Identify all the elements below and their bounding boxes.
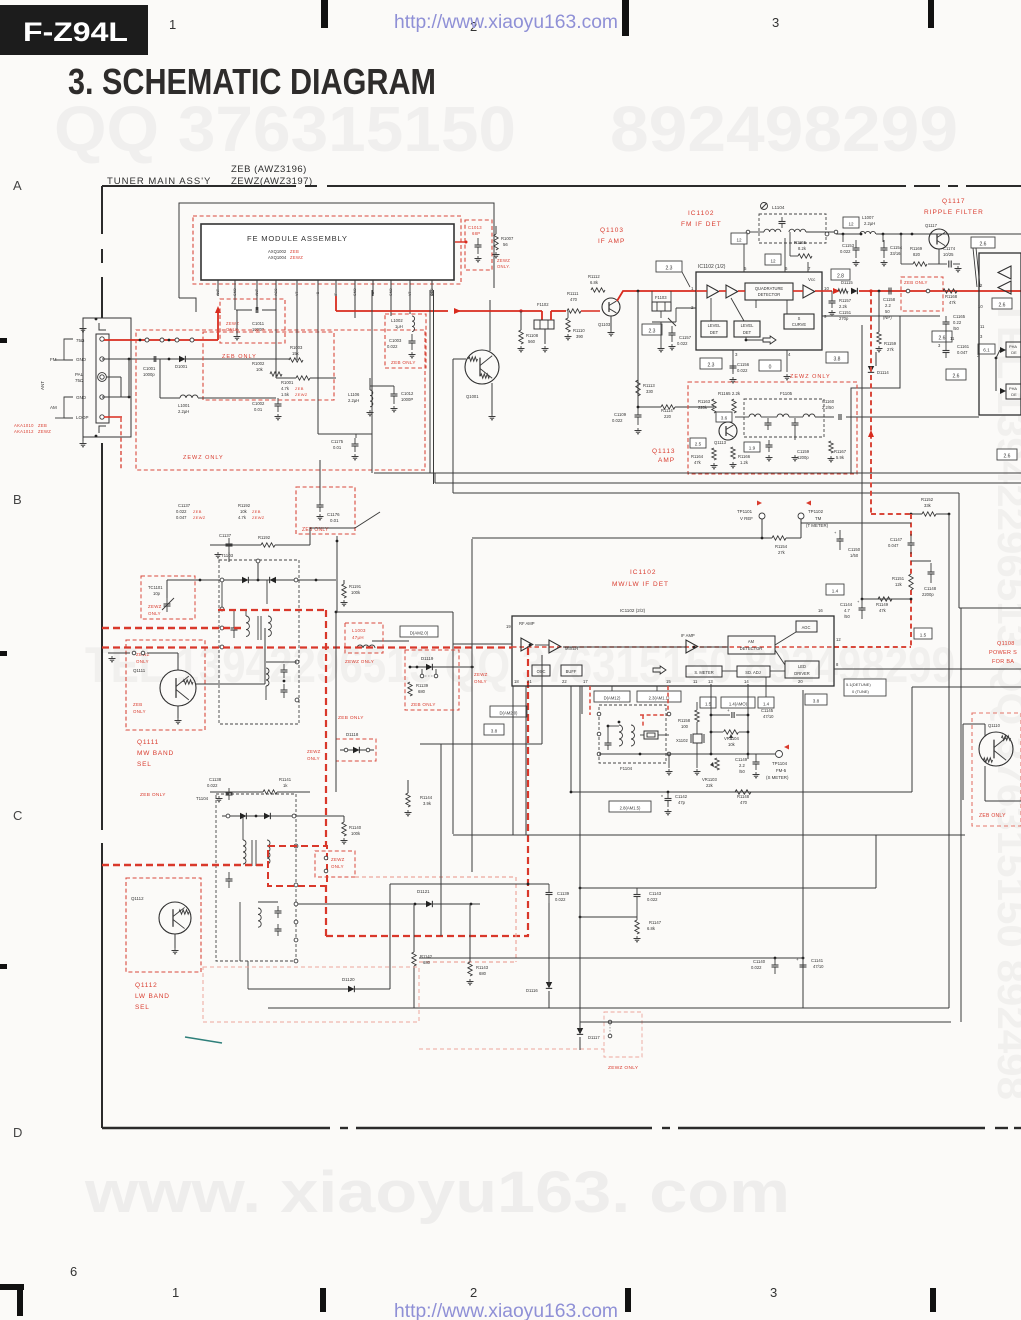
svg-text:D1117: D1117 (588, 1035, 600, 1040)
svg-text:ONLY.: ONLY. (497, 264, 510, 269)
ZEB ONLY red dashed box (C1001 area) (203, 332, 334, 400)
svg-text:R1191: R1191 (349, 584, 362, 589)
svg-text:L1104: L1104 (772, 205, 785, 210)
svg-text:AMP: AMP (658, 457, 675, 464)
svg-text:ZEB: ZEB (290, 249, 299, 254)
IC pin 5 6 7 wires up (743, 243, 745, 272)
Q1111 red dashed box (126, 640, 205, 730)
long bus lines band B-C (453, 834, 965, 836)
long bus lines under band A (374, 472, 1021, 474)
PAL GND internal wiring (102, 358, 200, 360)
svg-text:C1001: C1001 (143, 366, 156, 371)
svg-text:C1137: C1137 (219, 533, 232, 538)
svg-text:6.8k: 6.8k (590, 280, 599, 285)
svg-text:MW/LW IF DET: MW/LW IF DET (612, 581, 669, 588)
svg-text:ZEWZ: ZEWZ (307, 749, 321, 754)
svg-text:0.022: 0.022 (555, 897, 566, 902)
OSC pin routing y744 (420, 743, 542, 745)
red dash drops from IC2 pins (589, 686, 591, 715)
svg-text:V REF: V REF (740, 516, 753, 521)
svg-text:4.7k: 4.7k (238, 515, 247, 520)
svg-text:D: D (13, 1125, 22, 1140)
capacitor C1013 (475, 244, 482, 246)
svg-text:X1102: X1102 (676, 738, 688, 743)
svg-text:R1108: R1108 (526, 333, 539, 338)
IC1102(2/2) box (512, 616, 834, 686)
svg-text:33/16: 33/16 (890, 251, 901, 256)
svg-text:C1109: C1109 (614, 412, 627, 417)
svg-text:MW BAND: MW BAND (137, 750, 174, 757)
svg-text:L1007: L1007 (862, 215, 874, 220)
svg-text:C1148: C1148 (924, 586, 937, 591)
svg-text:100k: 100k (351, 590, 361, 595)
svg-text:DE: DE (1011, 350, 1017, 355)
svg-text:ZEB ONLY: ZEB ONLY (979, 813, 1006, 819)
svg-text:2.2μH: 2.2μH (178, 409, 189, 414)
svg-text:1.5k: 1.5k (281, 392, 290, 397)
T1103 lower tank (266, 668, 269, 686)
svg-text:AM: AM (748, 639, 755, 644)
svg-text:1000P: 1000P (401, 397, 413, 402)
svg-text:PAL: PAL (75, 372, 84, 377)
svg-text:0.022: 0.022 (612, 418, 623, 423)
svg-text:16: 16 (818, 608, 823, 613)
frame bottom border (102, 1127, 330, 1129)
svg-text:ZEWZ: ZEWZ (295, 392, 308, 397)
svg-text:D(AM2.0): D(AM2.0) (500, 710, 519, 715)
Q1111 input wires (108, 652, 130, 654)
svg-text:R1168: R1168 (945, 294, 958, 299)
svg-text:470: 470 (740, 800, 748, 805)
R1159 27k branch (878, 290, 881, 293)
svg-text:DET: DET (743, 330, 752, 335)
TP1104 FM-5 (784, 745, 789, 750)
svg-text:47k: 47k (694, 460, 702, 465)
svg-text:/50: /50 (844, 614, 850, 619)
svg-text:75Ω: 75Ω (75, 378, 84, 383)
callout row under IC2 (594, 691, 630, 702)
thick red dashed MW line (102, 627, 245, 629)
IC1102(1/2) box (696, 272, 822, 350)
svg-text:892498299: 892498299 (610, 93, 958, 165)
bus line y792 (571, 791, 908, 793)
svg-text:0.01: 0.01 (254, 407, 263, 412)
svg-text:2.6: 2.6 (980, 241, 987, 247)
svg-text:F1102: F1102 (537, 302, 549, 307)
frame top border (102, 185, 296, 187)
R1157 C1151 stack (829, 300, 836, 302)
resistor R1007 (494, 234, 498, 250)
svg-text:LED: LED (798, 664, 806, 669)
svg-text:AXQ1002: AXQ1002 (268, 249, 287, 254)
svg-text:IC1102 (1/2): IC1102 (1/2) (698, 264, 726, 270)
svg-text:10/25: 10/25 (943, 252, 954, 257)
svg-text:LEVEL: LEVEL (741, 323, 754, 328)
red dashed drop from LOOP (120, 418, 122, 470)
2.6 callouts right edge (971, 237, 995, 248)
Q1112 red dashed box (126, 878, 201, 972)
svg-text:T1103: T1103 (221, 553, 234, 558)
svg-text:C1154: C1154 (890, 245, 903, 250)
svg-text:C1150: C1150 (848, 547, 861, 552)
svg-text:Q1117: Q1117 (925, 223, 938, 228)
svg-text:R1112: R1112 (588, 274, 600, 279)
C1147 0.047 on path (908, 542, 915, 544)
svg-text:3.6: 3.6 (721, 415, 728, 420)
vertical buses right (802, 690, 804, 1008)
thick red dashed LW line (102, 864, 268, 866)
svg-text:C1149: C1149 (735, 757, 748, 762)
svg-text:Q1113: Q1113 (652, 448, 676, 455)
svg-text:14: 14 (744, 679, 749, 684)
svg-text:47/10: 47/10 (813, 964, 824, 969)
svg-text:1.4(AMO): 1.4(AMO) (729, 701, 748, 706)
svg-text:Q1111: Q1111 (137, 739, 159, 746)
gnd under F1104 (668, 754, 670, 768)
R1108 560 (519, 330, 523, 344)
svg-text:www. xiaoyu163. com: www. xiaoyu163. com (84, 1160, 790, 1225)
svg-text:2.2μH: 2.2μH (348, 398, 359, 403)
svg-text:C1012: C1012 (401, 391, 414, 396)
svg-text:PHA: PHA (1009, 386, 1017, 391)
svg-text:6.1: 6.1 (983, 347, 990, 352)
svg-text:0.047: 0.047 (888, 543, 899, 548)
2.8(AM1.5) callout (609, 801, 651, 812)
svg-text:/50: /50 (953, 326, 959, 331)
svg-text:Q1108: Q1108 (997, 641, 1015, 647)
3.8 callout right (826, 352, 848, 363)
svg-text:C1147: C1147 (890, 537, 903, 542)
svg-text:R1149: R1149 (876, 602, 889, 607)
Q1113 AMP red dashed box (688, 382, 857, 474)
svg-text:IF AMP: IF AMP (598, 238, 625, 245)
svg-text:R1110: R1110 (573, 328, 585, 333)
svg-text:C1142: C1142 (675, 794, 688, 799)
open arrow (763, 336, 776, 344)
svg-text:LW BAND: LW BAND (135, 993, 170, 1000)
svg-text:0.01: 0.01 (333, 445, 342, 450)
S meter line to TP1104 (599, 753, 775, 755)
svg-text:3.8: 3.8 (834, 356, 841, 362)
svg-text:0.047: 0.047 (176, 515, 187, 520)
SD ADJ box (737, 666, 770, 677)
svg-text:SEL: SEL (137, 761, 152, 768)
svg-text:11: 11 (693, 679, 698, 684)
svg-text:D1118: D1118 (346, 732, 359, 737)
svg-text:C1011: C1011 (252, 321, 265, 326)
frame left border (101, 186, 103, 234)
diode D1001 (179, 356, 185, 362)
C1165 stack (943, 321, 950, 323)
svg-text:22k: 22k (706, 783, 714, 788)
svg-text:ZEB (AWZ3196): ZEB (AWZ3196) (231, 164, 307, 175)
svg-text:AKA1010: AKA1010 (14, 423, 34, 428)
svg-text:AGC: AGC (274, 288, 278, 296)
svg-text:S. METER: S. METER (694, 670, 713, 675)
svg-text:4.7: 4.7 (844, 608, 850, 613)
svg-text:18: 18 (514, 679, 519, 684)
S METER box (686, 666, 722, 677)
wire C1001 D1001 row (200, 358, 290, 360)
svg-text:1μH: 1μH (395, 324, 403, 329)
svg-text:2.2: 2.2 (885, 303, 891, 308)
svg-text:0.022: 0.022 (840, 249, 851, 254)
svg-text:D1114: D1114 (877, 370, 889, 375)
svg-text:R1140: R1140 (349, 825, 362, 830)
svg-text:BUFF: BUFF (566, 669, 577, 674)
svg-text:PHA: PHA (1009, 344, 1017, 349)
callout 2.3 at pin1 (656, 261, 682, 272)
svg-text:C1145: C1145 (761, 708, 774, 713)
svg-text:TC1101: TC1101 (148, 585, 163, 590)
svg-text:2200p: 2200p (922, 592, 934, 597)
svg-text:ONLY: ONLY (136, 659, 149, 664)
F1104 transformer (619, 725, 623, 746)
svg-text:C1139: C1139 (557, 891, 570, 896)
svg-text:FM-5: FM-5 (776, 768, 787, 773)
svg-text:IF AMP: IF AMP (681, 633, 695, 638)
svg-text:2.6: 2.6 (939, 335, 946, 341)
bus3 corner right (958, 493, 960, 608)
second transformer lower (258, 908, 261, 927)
crystal resonator in F1104 (644, 731, 658, 739)
svg-text:IC1102: IC1102 (688, 210, 714, 217)
svg-text:C1003: C1003 (389, 338, 402, 343)
svg-text:C1013: C1013 (468, 225, 482, 230)
svg-text:R1147: R1147 (649, 920, 662, 925)
svg-text:12: 12 (836, 637, 841, 642)
ZEB ONLY red dashed box on line (901, 277, 943, 311)
svg-text:C1158: C1158 (883, 297, 896, 302)
svg-text:27k: 27k (887, 347, 895, 352)
quadrature detector box (745, 283, 793, 300)
top margin tick 1 (321, 0, 328, 28)
red loop box at T1104 (268, 846, 327, 886)
svg-text:ZEB: ZEB (252, 509, 261, 514)
svg-text:D(AM12): D(AM12) (604, 695, 621, 700)
svg-text:50: 50 (885, 309, 890, 314)
svg-text:R1141: R1141 (279, 777, 292, 782)
svg-text:680: 680 (479, 971, 487, 976)
svg-text:19: 19 (506, 624, 511, 629)
ZEWZ ONLY small box band C (315, 851, 355, 877)
svg-text:0.022: 0.022 (737, 368, 748, 373)
red wire Q1103 to IC1102 (617, 291, 696, 301)
svg-text:LOOP: LOOP (76, 415, 89, 420)
ZEWZ ONLY pink box (604, 1012, 642, 1057)
R1139 680 (408, 682, 412, 696)
svg-text:TP1101: TP1101 (737, 509, 753, 514)
svg-text:+: + (796, 957, 799, 962)
header black model box (0, 5, 148, 55)
svg-text:R1164: R1164 (691, 454, 704, 459)
TP1101 V REF (757, 501, 762, 506)
svg-text:R1155: R1155 (794, 240, 807, 245)
svg-text:R1152: R1152 (921, 497, 934, 502)
svg-text:ZEWZ: ZEWZ (193, 515, 206, 520)
svg-text:DE: DE (1011, 392, 1017, 397)
svg-text:1: 1 (172, 1285, 179, 1300)
R1151 12k on path (909, 574, 913, 590)
svg-text:R1157: R1157 (839, 298, 852, 303)
bottom margin ticks (0, 1284, 24, 1290)
svg-text:3.8: 3.8 (491, 728, 498, 733)
svg-text:12k: 12k (895, 582, 903, 587)
svg-text:VR1103: VR1103 (702, 777, 717, 782)
R1191 100k (342, 584, 346, 598)
svg-text:1.2k: 1.2k (740, 460, 749, 465)
svg-text:ANT: ANT (40, 381, 45, 390)
T1104 edge terminals (294, 844, 298, 848)
AM DETECTOR box (728, 636, 775, 654)
svg-text:R1192: R1192 (238, 503, 251, 508)
svg-text:DETECTOR: DETECTOR (740, 646, 762, 651)
svg-text:17: 17 (583, 679, 588, 684)
svg-text:FOR BA: FOR BA (992, 659, 1014, 665)
5.1 DETUNE double callout (844, 679, 886, 696)
svg-text:+: + (727, 708, 730, 713)
svg-text:3: 3 (772, 15, 779, 30)
misc connect (802, 969, 804, 1008)
svg-text:C1141: C1141 (811, 958, 824, 963)
svg-text:1.4: 1.4 (763, 701, 770, 706)
svg-text:33k: 33k (924, 503, 932, 508)
12 callouts (731, 233, 747, 244)
svg-text:R1001: R1001 (281, 380, 294, 385)
svg-text:TEL 13942296513 QQ 376315150 8: TEL 13942296513 QQ 376315150 892498299 (85, 637, 955, 693)
svg-text:47μH: 47μH (352, 635, 364, 640)
svg-text:FE MODULE ASSEMBLY: FE MODULE ASSEMBLY (247, 234, 348, 243)
svg-text:10p: 10p (153, 591, 161, 596)
svg-text:56: 56 (503, 242, 508, 247)
svg-text:Q1103: Q1103 (600, 227, 624, 234)
svg-text:OSC: OSC (537, 669, 546, 674)
svg-text:5.1(DETUNE): 5.1(DETUNE) (846, 682, 871, 687)
svg-text:R1139: R1139 (416, 683, 429, 688)
pin9 routing to buses (851, 316, 900, 473)
svg-text:Q1110: Q1110 (988, 723, 1001, 728)
level det boxes (701, 321, 727, 337)
svg-text:GND: GND (76, 357, 87, 362)
svg-text:QUADRATURE: QUADRATURE (755, 286, 784, 291)
svg-text:ZEB ONLY: ZEB ONLY (411, 702, 436, 707)
svg-text:C1002: C1002 (252, 401, 265, 406)
transistor Q1117 (929, 229, 949, 249)
svg-text:680: 680 (423, 960, 431, 965)
svg-text:D1119: D1119 (421, 656, 434, 661)
chain terminals on antenna wire (139, 339, 142, 342)
svg-text:GND: GND (389, 288, 393, 296)
svg-text:D(AM2.0): D(AM2.0) (410, 630, 429, 635)
svg-text:R1007: R1007 (501, 236, 514, 241)
svg-text:ZEWZ ONLY: ZEWZ ONLY (790, 374, 831, 380)
red IF wire (335, 296, 337, 311)
svg-text:5.9k: 5.9k (836, 455, 845, 460)
lines to right edge (834, 668, 1021, 670)
svg-text:ZEB: ZEB (133, 702, 142, 707)
ZEWZ ONLY small box C1011 (220, 299, 285, 343)
svg-text:ONLY: ONLY (331, 864, 344, 869)
1.4 1.5 callouts (826, 584, 844, 595)
antenna terminals (100, 337, 104, 341)
transistor Q1112 (159, 902, 191, 934)
svg-text:6.8k: 6.8k (647, 926, 656, 931)
svg-text:10k: 10k (728, 742, 736, 747)
open arrow in IC2 (653, 666, 666, 674)
svg-text:C1174: C1174 (943, 246, 956, 251)
svg-text:D1116: D1116 (526, 988, 538, 993)
svg-text:15k: 15k (292, 351, 300, 356)
svg-text:POWER S: POWER S (989, 650, 1017, 656)
svg-text:3: 3 (770, 1285, 777, 1300)
TM line y523 (801, 522, 911, 524)
small green mark (185, 1037, 222, 1043)
svg-text:C1143: C1143 (649, 891, 662, 896)
svg-text:(S METER): (S METER) (766, 775, 789, 780)
svg-text:12: 12 (770, 258, 776, 263)
C1158 series cap (888, 288, 890, 295)
svg-text:DET: DET (710, 330, 719, 335)
svg-text:0: 0 (769, 364, 772, 370)
TC1101 ZEWZ box (141, 576, 195, 619)
svg-text:Q1112: Q1112 (135, 982, 158, 989)
FE module red dashed box (193, 216, 461, 284)
IC2 stub wires to callouts (765, 677, 767, 697)
svg-text:1000p: 1000p (143, 372, 155, 377)
FE module assembly box (201, 224, 454, 280)
svg-text:13: 13 (708, 679, 713, 684)
antenna terminal block (83, 318, 131, 437)
svg-text:22: 22 (562, 679, 567, 684)
svg-text:ZEB: ZEB (295, 386, 304, 391)
svg-text:A: A (13, 178, 22, 193)
svg-text:Q1111: Q1111 (133, 668, 146, 673)
svg-text:AM: AM (50, 405, 57, 410)
C1161 0.047 (943, 350, 950, 352)
svg-text:R1163: R1163 (698, 399, 711, 404)
trimmer and C1157 under F1103 (660, 311, 662, 318)
svg-text:TP1102: TP1102 (808, 509, 824, 514)
svg-text:2.2/50: 2.2/50 (822, 405, 834, 410)
svg-text:2.6: 2.6 (953, 373, 960, 379)
svg-text:S: S (798, 316, 801, 321)
svg-text:2.2: 2.2 (739, 763, 745, 768)
svg-text:ZEWZ: ZEWZ (252, 515, 265, 520)
svg-text:L1001: L1001 (178, 403, 190, 408)
svg-text:F-Z94L: F-Z94L (23, 17, 128, 47)
svg-text:FM: FM (50, 357, 57, 362)
wire to RF AMP corner (336, 611, 453, 613)
svg-text:ONLY: ONLY (307, 756, 320, 761)
svg-text:ZEWZ: ZEWZ (290, 255, 303, 260)
svg-text:11: 11 (980, 324, 985, 329)
svg-text:27k: 27k (778, 550, 786, 555)
svg-text:R1165 2.2k: R1165 2.2k (718, 391, 741, 396)
R1140 100k (342, 822, 346, 836)
svg-text:CURVE: CURVE (792, 322, 807, 327)
right column boxes and amps (998, 266, 1011, 279)
pin3 C1156 (732, 350, 734, 372)
R1113 330 branch (637, 291, 639, 407)
svg-text:ZEWZ ONLY: ZEWZ ONLY (608, 1065, 639, 1071)
svg-text:SEL: SEL (135, 1004, 150, 1011)
red wire through IC (696, 290, 707, 292)
svg-text:3. SCHEMATIC DIAGRAM: 3. SCHEMATIC DIAGRAM (68, 61, 436, 102)
svg-text:R1144: R1144 (420, 795, 433, 800)
transistor Q1111 big (160, 670, 196, 706)
svg-text:680: 680 (418, 689, 426, 694)
svg-text:R1159: R1159 (884, 341, 897, 346)
